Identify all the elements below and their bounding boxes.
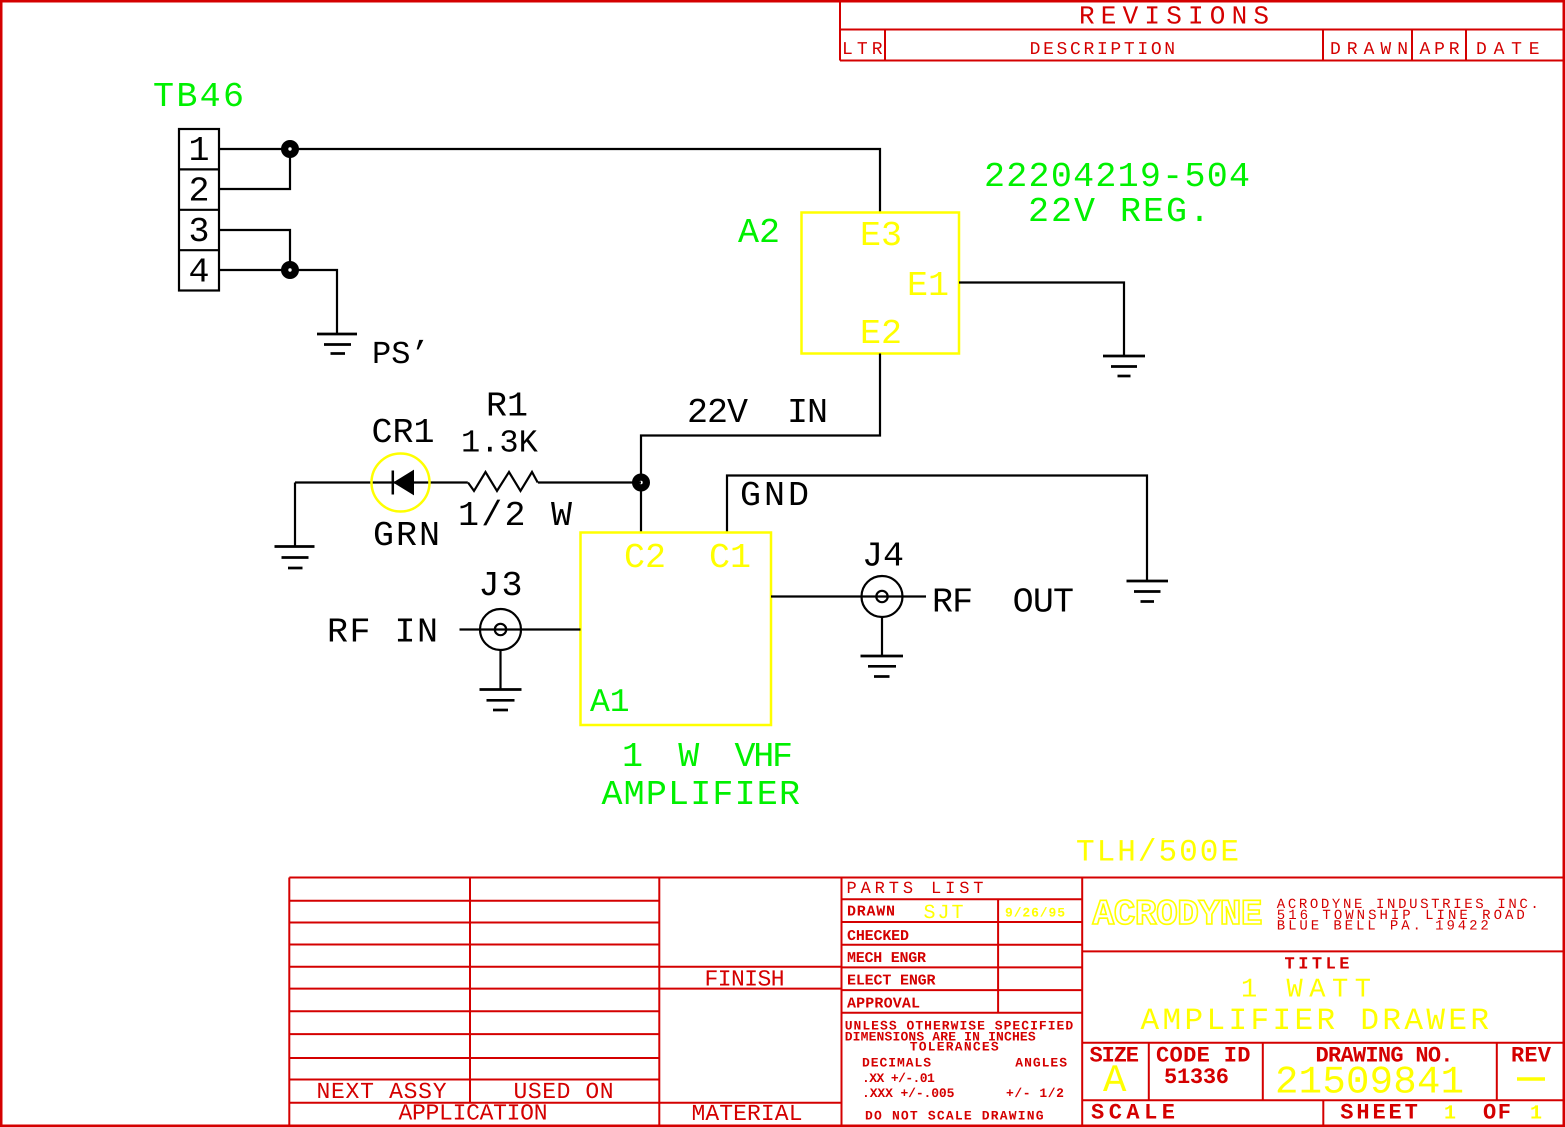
ground J4 (861, 656, 904, 677)
wire TB46-4 to ground (219, 270, 337, 334)
wire E2 to 22V node (641, 354, 880, 533)
wire A1 to RF OUT (771, 595, 926, 597)
ground E1 (1103, 356, 1145, 376)
svg-text:J4: J4 (862, 537, 904, 577)
ground PS' (317, 334, 357, 354)
svg-text:ELECT ENGR: ELECT ENGR (847, 973, 936, 990)
junction node 1 (281, 140, 299, 158)
svg-text:DESCRIPTION: DESCRIPTION (1030, 40, 1176, 60)
svg-text:GND: GND (740, 476, 809, 516)
svg-text:A1: A1 (590, 684, 630, 721)
svg-text:4: 4 (188, 253, 209, 293)
connector J4 (862, 576, 903, 617)
wire TB46-2 to node (219, 149, 290, 189)
resistor R1 (468, 472, 538, 491)
svg-text:22204219-504: 22204219-504 (984, 157, 1250, 197)
svg-text:ANGLES: ANGLES (1015, 1055, 1067, 1070)
svg-text:C2: C2 (624, 538, 666, 578)
svg-text:9/26/95: 9/26/95 (1005, 906, 1065, 921)
svg-text:.XX +/-.01: .XX +/-.01 (862, 1071, 935, 1086)
ground J3 (480, 690, 522, 711)
svg-text:22V REG.: 22V REG. (1028, 192, 1210, 232)
svg-text:APPROVAL: APPROVAL (847, 996, 920, 1013)
title block grid (289, 878, 1563, 1126)
svg-text:1 W VHF: 1 W VHF (622, 737, 793, 777)
svg-text:J3: J3 (479, 566, 523, 606)
svg-text:SJT: SJT (924, 902, 964, 925)
wire TB46-3 to node (219, 230, 290, 270)
svg-text:RF IN: RF IN (327, 613, 438, 653)
svg-text:DO NOT SCALE DRAWING: DO NOT SCALE DRAWING (865, 1109, 1044, 1124)
svg-text:REV: REV (1511, 1043, 1552, 1068)
svg-text:MATERIAL: MATERIAL (692, 1101, 803, 1127)
svg-text:SCALE: SCALE (1091, 1101, 1175, 1126)
op-amp module A2 (22V regulator) (802, 213, 960, 354)
wire J4 to ground (881, 617, 883, 656)
svg-text:RF OUT: RF OUT (932, 583, 1074, 623)
svg-text:C1: C1 (709, 538, 751, 578)
svg-text:22V IN: 22V IN (687, 393, 828, 433)
svg-text:OF: OF (1483, 1101, 1511, 1126)
svg-text:R1: R1 (486, 387, 528, 427)
svg-text:+/- 1/2: +/- 1/2 (1006, 1086, 1064, 1101)
svg-text:.XXX +/-.005: .XXX +/-.005 (862, 1086, 955, 1101)
svg-text:1: 1 (1444, 1103, 1456, 1126)
terminal block TB46 (179, 129, 219, 291)
svg-text:MECH ENGR: MECH ENGR (847, 950, 926, 967)
wire J3 to ground (499, 650, 501, 690)
svg-text:LTR: LTR (842, 40, 883, 60)
wire CR1 to ground (294, 483, 296, 547)
svg-text:A2: A2 (738, 213, 780, 253)
svg-text:1.3K: 1.3K (461, 425, 539, 462)
svg-text:SHEET: SHEET (1340, 1101, 1418, 1126)
svg-text:CR1: CR1 (372, 413, 435, 453)
wire E1 to ground (959, 283, 1124, 357)
svg-text:PS’: PS’ (372, 336, 430, 373)
svg-text:E1: E1 (907, 266, 949, 306)
svg-text:CHECKED: CHECKED (847, 928, 909, 945)
svg-text:FINISH: FINISH (705, 967, 785, 993)
ground GND net (1127, 581, 1169, 602)
svg-text:TITLE: TITLE (1285, 955, 1350, 974)
svg-text:A: A (1103, 1059, 1127, 1103)
svg-text:REVISIONS: REVISIONS (1079, 2, 1269, 32)
svg-text:1: 1 (188, 131, 209, 171)
svg-text:1/2 W: 1/2 W (458, 496, 572, 536)
junction node 3 (632, 474, 650, 492)
svg-text:1: 1 (1530, 1103, 1542, 1126)
connector J3 (480, 609, 521, 650)
svg-text:GRN: GRN (373, 516, 440, 556)
svg-text:APR: APR (1420, 40, 1460, 60)
wire R1 to node (538, 481, 641, 483)
svg-text:E3: E3 (860, 216, 902, 256)
svg-text:2: 2 (188, 172, 209, 212)
diode CR1 (372, 454, 430, 512)
svg-text:51336: 51336 (1164, 1065, 1229, 1090)
value rev dash (1517, 1077, 1545, 1081)
ground CR1 (275, 547, 315, 569)
junction node 2 (281, 261, 299, 279)
svg-text:AMPLIFIER: AMPLIFIER (602, 775, 801, 815)
REVISIONS table (840, 2, 1563, 61)
svg-text:DECIMALS: DECIMALS (862, 1055, 931, 1070)
wire RF IN to A1 (460, 628, 581, 630)
svg-text:3: 3 (188, 212, 209, 252)
svg-text:ACRODYNE: ACRODYNE (1093, 894, 1263, 935)
wire TB46-1 to A2 E3 (219, 149, 880, 213)
amplifier module A1 (581, 533, 772, 726)
svg-text:DRAWN: DRAWN (847, 904, 895, 921)
svg-text:TOLERANCES: TOLERANCES (910, 1040, 999, 1055)
wire GND net (727, 476, 1147, 582)
svg-text:21509841: 21509841 (1275, 1060, 1464, 1104)
wire CR1 branch (295, 481, 468, 483)
svg-text:APPLICATION: APPLICATION (399, 1101, 548, 1127)
svg-text:E2: E2 (860, 314, 902, 354)
